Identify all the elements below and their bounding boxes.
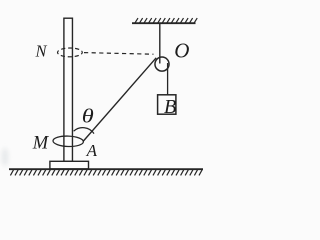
svg-text:N: N bbox=[35, 42, 48, 61]
svg-text:θ: θ bbox=[82, 104, 94, 126]
svg-text:M: M bbox=[32, 134, 50, 154]
svg-text:B: B bbox=[164, 96, 177, 118]
svg-text:A: A bbox=[86, 141, 98, 160]
svg-text:O: O bbox=[174, 39, 189, 63]
